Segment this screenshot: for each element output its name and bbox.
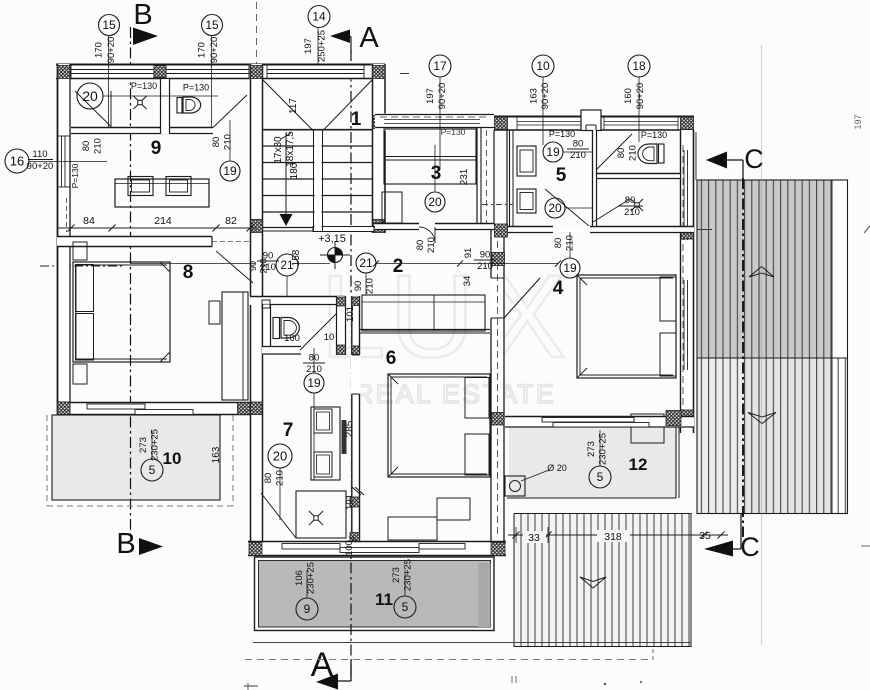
svg-text:80: 80 [553,238,564,249]
svg-text:20: 20 [428,195,442,209]
svg-text:82: 82 [225,215,237,227]
svg-text:P=130: P=130 [131,81,157,91]
svg-text:210: 210 [570,150,586,161]
svg-text:10: 10 [536,59,550,73]
svg-text:35: 35 [699,530,711,542]
svg-text:210: 210 [306,364,322,375]
svg-text:2: 2 [393,256,404,277]
svg-text:163: 163 [529,88,540,104]
svg-text:20: 20 [273,449,287,464]
svg-text:19: 19 [307,376,321,390]
svg-text:170: 170 [197,42,208,58]
svg-text:273: 273 [586,441,597,457]
svg-text:210: 210 [565,235,576,251]
svg-text:210: 210 [365,278,376,294]
svg-text:7: 7 [283,420,294,441]
svg-text:B: B [133,0,152,31]
svg-text:80: 80 [625,195,636,206]
svg-text:160: 160 [284,333,300,344]
svg-text:A: A [359,22,379,54]
svg-text:80: 80 [616,148,627,159]
svg-text:19: 19 [563,261,577,275]
svg-text:231: 231 [459,168,470,185]
svg-text:318: 318 [604,531,622,543]
svg-text:214: 214 [154,215,172,227]
svg-text:117: 117 [288,98,299,114]
svg-text:19: 19 [546,145,560,159]
svg-text:80: 80 [211,137,222,148]
svg-text:8: 8 [183,262,194,283]
svg-text:197: 197 [853,114,863,129]
svg-text:12: 12 [629,455,648,474]
svg-text:16: 16 [10,154,24,169]
svg-text:18x17,5: 18x17,5 [285,131,296,167]
svg-text:250+25: 250+25 [317,30,328,62]
svg-text:170: 170 [94,42,105,58]
svg-text:5: 5 [556,165,567,186]
svg-text:11: 11 [375,590,393,609]
svg-text:10: 10 [163,449,182,468]
svg-text:5: 5 [402,600,409,614]
svg-text:9: 9 [304,602,311,616]
svg-text:+3,15: +3,15 [318,233,346,245]
svg-text:210: 210 [223,134,234,150]
svg-text:197: 197 [303,38,314,54]
svg-text:106: 106 [294,570,305,586]
svg-text:20: 20 [82,88,98,104]
svg-text:230+25: 230+25 [403,559,414,591]
svg-text:210: 210 [624,207,640,218]
svg-text:REAL ESTATE: REAL ESTATE [354,379,556,409]
svg-text:1: 1 [351,109,362,130]
svg-text:5: 5 [597,470,604,484]
svg-text:80: 80 [81,141,92,152]
svg-text:90+20: 90+20 [635,83,646,110]
svg-text:163: 163 [211,446,222,463]
svg-text:33: 33 [528,532,540,544]
svg-text:210: 210 [259,258,269,273]
svg-text:101: 101 [345,306,356,322]
svg-text:90: 90 [353,281,364,292]
svg-text:110: 110 [32,149,47,160]
svg-text:5: 5 [149,463,156,477]
svg-text:210: 210 [426,237,437,253]
svg-text:101: 101 [345,494,356,510]
svg-text:210: 210 [275,470,286,486]
svg-text:90+20: 90+20 [209,37,220,64]
svg-text:P=130: P=130 [441,127,466,137]
svg-text:Ø 20: Ø 20 [547,463,567,473]
svg-text:B: B [116,528,135,560]
svg-text:90+20: 90+20 [540,83,551,110]
svg-text:90+20: 90+20 [437,83,448,110]
svg-text:20: 20 [548,201,562,215]
svg-text:273: 273 [138,437,149,453]
svg-text:15: 15 [102,18,116,32]
svg-text:17x30: 17x30 [273,136,284,164]
svg-text:21: 21 [359,256,373,270]
svg-text:285: 285 [345,420,356,437]
svg-text:230+25: 230+25 [306,562,317,594]
svg-text:17: 17 [433,59,447,73]
svg-text:4: 4 [553,278,564,299]
svg-text:80: 80 [415,240,426,251]
svg-text:90: 90 [248,261,258,271]
svg-text:15: 15 [205,18,219,32]
svg-text:14: 14 [312,10,326,24]
svg-text:10: 10 [324,332,335,343]
svg-text:91: 91 [463,248,474,259]
svg-text:230+25: 230+25 [150,429,161,461]
svg-text:9: 9 [151,138,162,159]
svg-text:84: 84 [83,215,95,227]
svg-text:90: 90 [480,250,491,261]
svg-text:80: 80 [573,139,584,150]
svg-text:273: 273 [391,567,402,583]
svg-text:P=130: P=130 [549,129,575,139]
svg-text:6: 6 [386,348,397,369]
svg-text:34: 34 [462,276,473,287]
svg-text:P=130: P=130 [70,163,80,188]
svg-text:180: 180 [289,162,300,179]
svg-text:160: 160 [623,88,634,104]
svg-text:210: 210 [477,261,493,272]
svg-text:19: 19 [223,164,237,178]
svg-text:230+25: 230+25 [598,433,609,465]
svg-text:210: 210 [93,138,104,154]
svg-text:90+20: 90+20 [27,161,54,172]
svg-text:100: 100 [344,540,355,556]
svg-text:197: 197 [425,88,436,104]
svg-text:C: C [740,532,760,562]
svg-text:90+20: 90+20 [106,37,117,64]
svg-text:80: 80 [263,473,274,484]
svg-text:P=130: P=130 [183,83,209,93]
svg-text:210: 210 [628,145,639,161]
svg-text:80: 80 [309,353,320,364]
svg-text:18: 18 [632,59,646,73]
svg-text:P=130: P=130 [641,130,667,140]
svg-text:C: C [744,144,764,174]
